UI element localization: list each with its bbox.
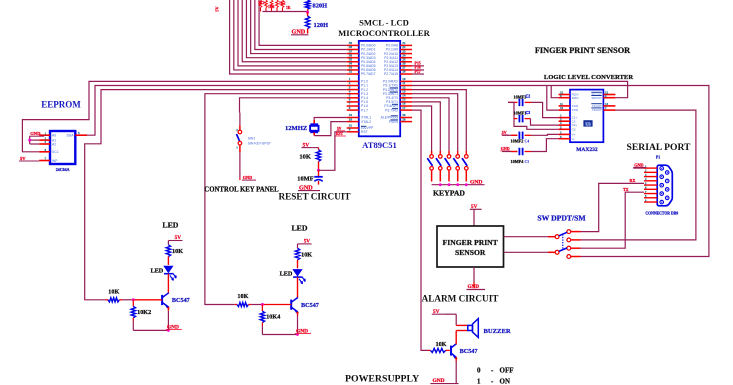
svg-text:32: 32 (349, 70, 353, 74)
text AT89C51 label (362, 140, 397, 150)
text LOGIC LEVEL CONVERTER title (544, 74, 633, 81)
svg-text:BC547: BC547 (172, 297, 190, 304)
svg-text:10MF4: 10MF4 (511, 159, 525, 164)
transistor Q3 BC547 alarm (451, 344, 477, 360)
text U3 designator (583, 120, 592, 126)
svg-text:T2IN: T2IN (572, 108, 579, 112)
svg-text:OFF: OFF (500, 366, 514, 374)
svg-text:12MHZ: 12MHZ (285, 125, 308, 132)
op-amp U1 microcontroller AT89C51 body (359, 41, 400, 136)
svg-text:XTAL2: XTAL2 (361, 120, 371, 124)
wire P1.3 to LED circuit 2 (205, 94, 347, 305)
ground GND control key (240, 175, 256, 180)
wire TXD rail from P3.1 to DPDT contact (412, 86, 709, 257)
text CONTROL KEY PANEL label (204, 186, 279, 193)
svg-text:MAX232: MAX232 (576, 147, 598, 153)
text RESET CIRCUIT label (278, 191, 350, 201)
wire keypad column wires from P3.2-P3.6 (412, 90, 466, 154)
svg-text:R2IN: R2IN (572, 96, 579, 100)
wire A1 A2 ground loop (30, 136, 40, 144)
ground GND at DB9 pin1 (633, 162, 646, 168)
wire P1.4 to control key switch (240, 98, 347, 113)
ground GND alarm (430, 378, 458, 384)
capacitor C3 10MF1 (514, 111, 531, 123)
svg-text:28: 28 (402, 70, 406, 74)
pins DB9 connector (644, 165, 669, 204)
text 24C04A label (56, 167, 70, 172)
svg-text:5V: 5V (502, 130, 507, 135)
node base junction LED circuit 2 (261, 303, 264, 306)
svg-text:FINGER PRINT: FINGER PRINT (443, 238, 498, 247)
IC U3 MAX232 body (570, 90, 603, 143)
power 5V alarm (432, 309, 456, 325)
svg-text:BC547: BC547 (460, 348, 478, 355)
ground GND reset (298, 184, 320, 191)
svg-text:P1: P1 (656, 155, 660, 159)
svg-text:SMCL - LCD: SMCL - LCD (359, 17, 409, 27)
resistor R 10K reset (299, 148, 320, 171)
svg-text:WP: WP (52, 159, 58, 163)
text SW DPDT/SM label (537, 214, 586, 223)
buzzer LS1 (456, 319, 511, 338)
node junction 820H/120H (306, 11, 309, 14)
svg-text:RST: RST (361, 130, 368, 134)
node reset RC junction (317, 169, 320, 172)
wire C2 right to C1+ (531, 102, 559, 117)
ground GND LED circuit 1 (166, 325, 182, 331)
svg-text:U3: U3 (585, 121, 591, 126)
ground GND LED circuit 2 (295, 329, 311, 335)
transistor Q2 BC547 (291, 298, 319, 335)
wire keypad common ground bus (432, 183, 485, 186)
svg-text:POWERSUPPLY: POWERSUPPLY (345, 373, 419, 384)
svg-text:10MF2: 10MF2 (511, 138, 524, 143)
svg-text:SCL: SCL (52, 150, 59, 154)
svg-text:SERIAL PORT: SERIAL PORT (627, 142, 692, 153)
wire emitter to ground (455, 357, 457, 383)
text LED title 1 (162, 220, 178, 229)
svg-text:1K2: 1K2 (258, 1, 265, 5)
text FINGER PRINT SENSOR title (535, 46, 631, 55)
svg-text:1K2: 1K2 (268, 5, 275, 9)
svg-text:GND: GND (501, 146, 510, 151)
capacitor C5 10MF4 with GND (500, 146, 531, 164)
resistor 10K base LED circuit 2 (235, 293, 292, 307)
power 5V reset circuit (302, 142, 319, 148)
wire P3.7 to alarm circuit (412, 110, 429, 350)
pin overline bars (INT0, INT1, WR, RD, PSEN, PROG, EA) (361, 88, 398, 126)
svg-text:MICROCONTROLLER: MICROCONTROLLER (338, 28, 430, 38)
svg-text:18: 18 (349, 117, 353, 121)
pins AT89C51 right side (P2, P3, ALE, PSEN) with stubs and numbers (381, 41, 412, 124)
svg-text:BUZZER: BUZZER (484, 328, 511, 335)
pins MAX232 left (559, 91, 579, 141)
pins MAX232 right (591, 91, 615, 113)
resistor 10K alarm base (429, 341, 450, 353)
wire reset node to RST pin (319, 132, 347, 171)
power 5V LED circuit 1 (168, 235, 182, 241)
wire resistor-pack commons to 820H/120H junction (263, 11, 308, 13)
node 5V label (rotated) (215, 6, 220, 11)
svg-text:SENSOR: SENSOR (455, 248, 486, 257)
svg-text:LED: LED (291, 224, 307, 233)
pin EEPROM SDA right (67, 131, 87, 137)
node EEPROM ground junction (28, 139, 31, 142)
wire C5 to V- (531, 139, 559, 152)
IC U2 EEPROM 24C04 body (50, 131, 75, 164)
resistor 120H (305, 12, 328, 33)
text legend 0-OFF 1-ON (477, 366, 514, 385)
wire branch rail to MAX232 R2IN (551, 86, 558, 98)
svg-text:LOGIC LEVEL CONVERTER: LOGIC LEVEL CONVERTER (544, 74, 633, 81)
svg-text:10K: 10K (301, 252, 312, 259)
svg-text:RESET CIRCUIT: RESET CIRCUIT (278, 191, 350, 201)
wire C4 to V+ (531, 133, 559, 136)
svg-text:10K: 10K (172, 248, 183, 255)
svg-text:GND: GND (30, 131, 41, 136)
text MAX232 label (576, 147, 598, 153)
svg-text:CONNECTOR DB9: CONNECTOR DB9 (645, 212, 678, 216)
svg-text:0: 0 (477, 366, 481, 374)
text KEYPAD label (433, 188, 465, 197)
svg-text:SW DPDT/SM: SW DPDT/SM (537, 214, 586, 223)
svg-text:10MF1: 10MF1 (514, 111, 527, 116)
svg-text:R2OUT: R2OUT (592, 96, 602, 100)
wire branch rail to MAX232 T2IN (547, 86, 559, 111)
svg-text:P17: P17 (415, 70, 421, 74)
svg-text:10K: 10K (237, 293, 248, 300)
pins AT89C51 left side (P0, P1, XTAL, EA, RST) with stubs and numbers (347, 41, 376, 134)
text SERIAL PORT title (627, 142, 692, 153)
capacitor C2 10MF3 (508, 94, 531, 106)
svg-text:A2: A2 (52, 142, 56, 146)
svg-text:10K: 10K (108, 288, 119, 295)
svg-text:1K: 1K (286, 6, 291, 10)
svg-text:SW1: SW1 (248, 136, 255, 140)
resistor 10K collector LED circuit 1 (166, 241, 183, 265)
LED D2 (280, 270, 306, 299)
svg-text:RX: RX (630, 178, 636, 183)
text P1 designator (656, 155, 660, 159)
wire XTAL1 to crystal (314, 118, 347, 125)
block fingerprint sensor box (437, 226, 504, 267)
svg-text:CONTROL KEY PANEL: CONTROL KEY PANEL (204, 186, 279, 193)
svg-text:P2.7/A15: P2.7/A15 (384, 72, 398, 76)
svg-text:10K2: 10K2 (137, 309, 151, 316)
wire collector to buzzer node (455, 331, 457, 345)
svg-text:LED: LED (162, 220, 178, 229)
ground GND keypad (470, 179, 482, 185)
text CONNECTOR DB9 label (645, 212, 678, 216)
resistor 10K4 emitter-base LED circuit 2 (260, 305, 280, 335)
wire P1.1 to EEPROM SDA (87, 86, 347, 136)
LED D1 (150, 266, 176, 293)
pins EEPROM left (A0 A1 A2 SCL WP) (39, 131, 59, 162)
svg-text:5V: 5V (337, 127, 342, 131)
ground GND at EEPROM A0 (29, 131, 44, 136)
svg-text:C4: C4 (525, 139, 530, 143)
svg-text:29: 29 (402, 117, 406, 121)
svg-text:RST: RST (336, 132, 344, 136)
switch SW2 DPDT poles and contacts (555, 230, 580, 259)
svg-text:GND: GND (470, 179, 482, 185)
resistor 820H (305, 0, 327, 12)
wire P0 bus from top edge to AT89C51 P0 pins (230, 0, 347, 74)
svg-text:C5: C5 (525, 160, 530, 164)
power 5V at EEPROM WP (19, 156, 39, 161)
svg-text:C2-: C2- (572, 127, 577, 131)
svg-text:24C04A: 24C04A (56, 167, 70, 172)
svg-text:120H: 120H (314, 22, 329, 29)
wire TX from DPDT contact 3 to DB9 (581, 187, 645, 248)
svg-text:BC547: BC547 (301, 302, 319, 309)
svg-text:10K4: 10K4 (266, 314, 280, 321)
keypad switches SW x5 (427, 153, 468, 181)
svg-text:820H: 820H (313, 2, 328, 9)
wire ground bus LED circuit 2 (262, 333, 299, 336)
wire C2 left / C3 left staircase to C2- (508, 102, 559, 129)
capacitor C4 10MF2 with 5V (501, 130, 531, 144)
svg-text:T2OUT: T2OUT (592, 108, 602, 112)
wire P1.0 to EEPROM SCL (22, 81, 346, 151)
capacitor C 10MF reset (297, 170, 322, 184)
svg-text:10K: 10K (299, 154, 310, 161)
svg-text:1K2: 1K2 (279, 2, 286, 6)
net labels 5V / RST at EA and RST pins (336, 127, 347, 136)
power 5V LED circuit 2 (298, 239, 312, 245)
wire P1.2 to LED circuit 1 (85, 90, 347, 300)
svg-text:10MF: 10MF (297, 175, 313, 182)
svg-text:SDA: SDA (67, 134, 75, 138)
text title SMCL-LCD MICROCONTROLLER (338, 17, 430, 38)
net labels on P2.5-P2.7 (412, 62, 424, 74)
resistor 10K collector LED circuit 2 (295, 244, 312, 268)
wire control key to ground (239, 145, 241, 178)
text ALARM CIRCUIT title (422, 294, 499, 304)
svg-text:GND: GND (243, 175, 252, 180)
svg-text:C2: C2 (526, 95, 531, 99)
svg-text:10MF3: 10MF3 (514, 94, 527, 99)
text POWERSUPPLY label (345, 373, 419, 384)
svg-text:LED: LED (280, 271, 293, 278)
connector J1 DB9 body (657, 165, 672, 206)
ground GND fingerprint sensor (467, 267, 486, 290)
wire crystal to XTAL2 (314, 122, 347, 136)
svg-text:KEYPAD: KEYPAD (433, 188, 465, 197)
wire RXD rail from P3.0 to MAX232 R2OUT (412, 81, 628, 97)
svg-text:ON: ON (500, 377, 511, 385)
svg-text:LED: LED (150, 267, 163, 274)
svg-text:A0: A0 (52, 134, 56, 138)
svg-text:5V: 5V (215, 6, 220, 11)
wire fingerprint to DPDT pole 2 (504, 251, 556, 253)
resistor pack RN1 (cut off at top) (258, 0, 291, 12)
resistor 10K2 emitter-base LED circuit 1 (131, 300, 151, 331)
svg-text:SW-KEY-SPST: SW-KEY-SPST (248, 142, 271, 146)
wire RX from DPDT contact 1 to DB9 (581, 178, 645, 231)
svg-text:GND: GND (634, 162, 643, 167)
svg-text:AT89C51: AT89C51 (362, 140, 397, 150)
svg-text:TX: TX (623, 187, 629, 192)
resistor 10K base LED circuit 1 (106, 288, 163, 302)
svg-text:V-: V- (572, 137, 575, 141)
wire fingerprint to DPDT pole 1 (504, 236, 556, 238)
svg-text:10K: 10K (435, 341, 446, 348)
wire C3 right to C2+ (531, 119, 559, 126)
svg-text:P0.7/AD7: P0.7/AD7 (361, 72, 376, 76)
wire ground bus LED circuit 1 (133, 329, 170, 332)
svg-text:C3: C3 (526, 111, 531, 115)
power 5V fingerprint sensor (470, 204, 482, 226)
crystal Y1 12MHZ (285, 124, 319, 132)
svg-text:10: 10 (560, 106, 564, 110)
svg-text:FINGER PRINT SENSOR: FINGER PRINT SENSOR (535, 46, 631, 55)
wire T2OUT to DPDT contact 2 (581, 110, 696, 240)
transistor Q1 BC547 (162, 293, 190, 331)
ground GND below 120H (291, 29, 308, 36)
svg-text:P1.7: P1.7 (361, 108, 368, 112)
svg-text:ALARM CIRCUIT: ALARM CIRCUIT (422, 294, 499, 304)
text EEPROM title (41, 100, 81, 110)
text LED title 2 (291, 224, 307, 233)
svg-text:17: 17 (402, 106, 406, 110)
svg-text:1: 1 (477, 377, 481, 385)
svg-text:5V: 5V (20, 156, 26, 161)
switch SW1 SW-KEY-SPST control key (236, 113, 271, 150)
node base junction LED circuit 1 (132, 298, 135, 301)
svg-text:EEPROM: EEPROM (41, 100, 81, 110)
